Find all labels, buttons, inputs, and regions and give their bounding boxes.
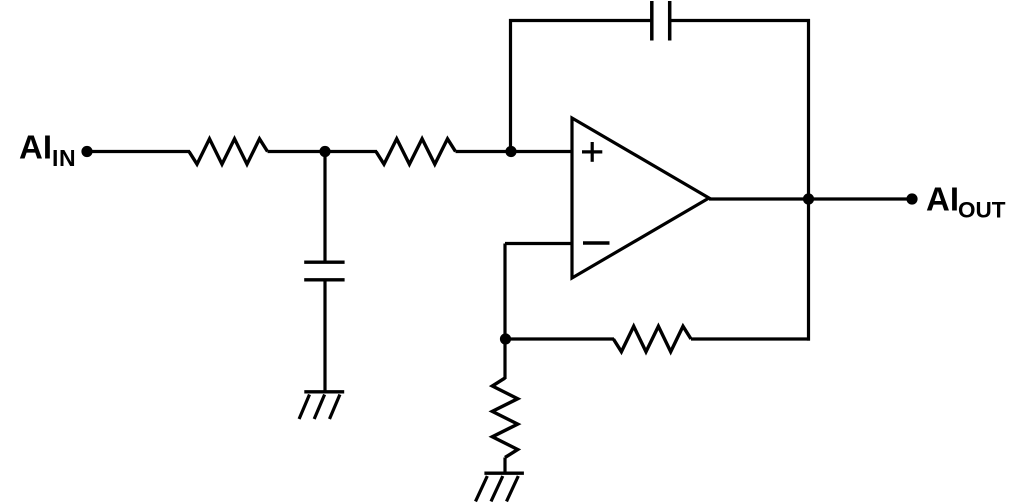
wire node C to R3 — [505, 337, 614, 340]
svg-text:AI: AI — [19, 129, 52, 166]
wire inverting input left — [505, 242, 572, 245]
resistor R3 — [613, 326, 691, 351]
wire R1 to node A — [268, 150, 326, 153]
ground symbol bottom — [476, 473, 524, 501]
wire AI_IN to R1 — [87, 150, 190, 153]
op-amp plus input symbol — [582, 142, 602, 162]
wire C1 to ground — [323, 280, 326, 392]
node output junction dot — [803, 193, 814, 204]
ground symbol left — [299, 392, 344, 419]
label AI_OUT — [926, 181, 1006, 223]
op-amp minus input symbol — [583, 241, 610, 244]
wire op-amp output to AI_OUT — [709, 197, 912, 200]
wire node A down to C1 — [323, 152, 326, 263]
wire node B up to feedback capacitor — [509, 19, 512, 153]
node AI_OUT terminal dot — [906, 193, 917, 204]
resistor R4 — [492, 378, 517, 458]
wire right vertical from top corner to output node — [807, 19, 810, 199]
node C junction dot — [500, 333, 511, 344]
wire R3 to right vertical — [691, 337, 810, 340]
wire node A to R2 — [325, 150, 377, 153]
wire top left to C2 — [509, 19, 652, 22]
wire inverting input down to node C — [503, 244, 506, 340]
capacitor C1 — [304, 262, 344, 280]
wire C2 to top right corner — [670, 19, 810, 22]
node B junction dot — [505, 146, 516, 157]
resistor R1 — [189, 139, 268, 164]
op-amp U1 — [572, 118, 709, 278]
wire node C down to R4 — [503, 339, 506, 379]
resistor R2 — [376, 139, 456, 164]
label AI_IN — [19, 129, 76, 172]
wire R4 to ground — [503, 458, 506, 474]
capacitor C2 — [652, 1, 670, 41]
svg-text:IN: IN — [52, 145, 76, 171]
svg-text:OUT: OUT — [958, 197, 1006, 222]
node AI_IN terminal dot — [81, 146, 92, 157]
svg-text:AI: AI — [926, 181, 959, 218]
wire right vertical output node down to feedback — [807, 199, 810, 341]
wire R2 to op-amp noninverting input — [456, 150, 573, 153]
node A junction dot — [319, 146, 330, 157]
